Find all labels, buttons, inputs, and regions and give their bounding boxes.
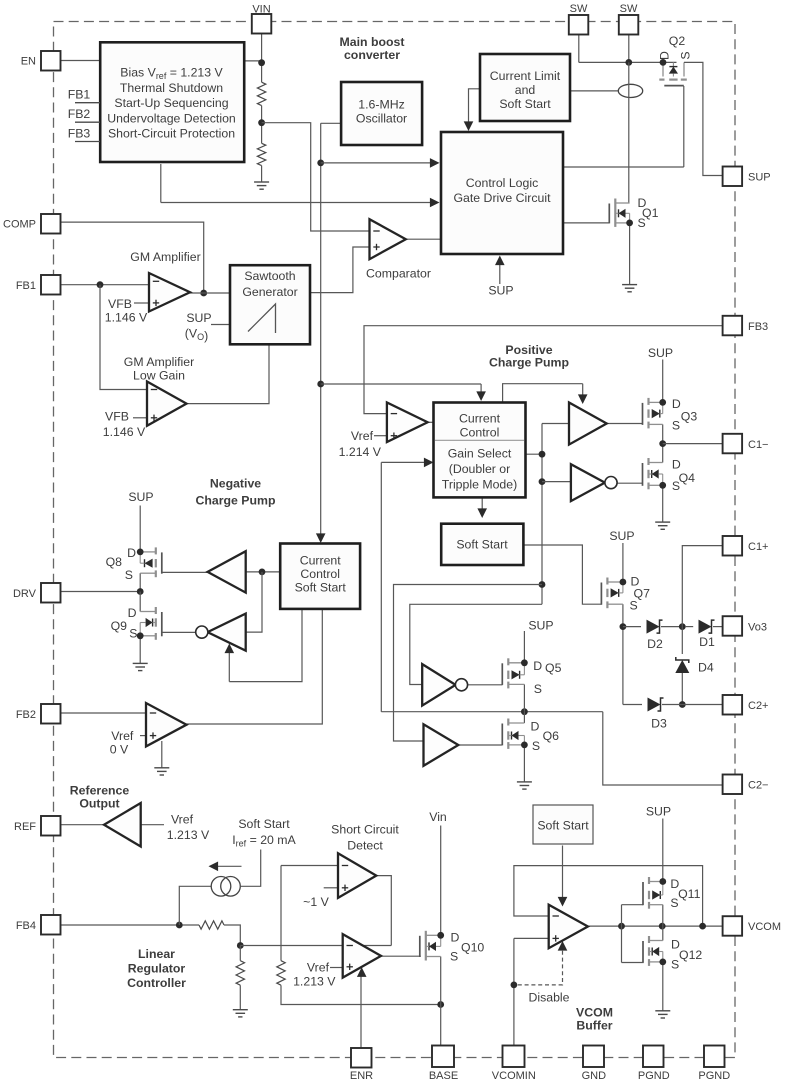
svg-text:Vref: Vref xyxy=(307,961,330,975)
svg-text:Soft Start: Soft Start xyxy=(295,581,347,595)
svg-text:Current: Current xyxy=(459,412,501,426)
svg-text:SUP: SUP xyxy=(488,284,513,298)
svg-text:VCOM: VCOM xyxy=(576,1006,613,1020)
svg-text:Q9: Q9 xyxy=(111,619,128,633)
svg-text:ENR: ENR xyxy=(350,1070,373,1081)
svg-text:Q6: Q6 xyxy=(543,729,560,743)
svg-text:Vin: Vin xyxy=(429,810,447,824)
svg-text:PGND: PGND xyxy=(698,1070,730,1081)
svg-text:Sawtooth: Sawtooth xyxy=(244,269,295,283)
svg-text:Low Gain: Low Gain xyxy=(133,369,185,383)
svg-text:Short-Circuit Protection: Short-Circuit Protection xyxy=(108,127,235,141)
svg-text:VIN: VIN xyxy=(252,3,270,15)
svg-text:1.213 V: 1.213 V xyxy=(167,828,210,842)
svg-text:Q10: Q10 xyxy=(461,941,484,955)
svg-text:VCOMIN: VCOMIN xyxy=(492,1070,536,1081)
svg-text:Iref = 20 mA: Iref = 20 mA xyxy=(232,833,296,849)
svg-text:1.213 V: 1.213 V xyxy=(293,975,336,989)
svg-text:(Doubler or: (Doubler or xyxy=(449,462,511,476)
svg-text:Soft Start: Soft Start xyxy=(456,538,508,552)
svg-text:D: D xyxy=(531,720,540,734)
svg-text:GM Amplifier: GM Amplifier xyxy=(124,355,194,369)
svg-text:S: S xyxy=(450,950,458,964)
svg-text:S: S xyxy=(125,568,133,582)
svg-text:S: S xyxy=(679,51,693,59)
svg-text:1.214 V: 1.214 V xyxy=(339,445,382,459)
svg-text:Q12: Q12 xyxy=(679,948,702,962)
svg-text:Vref: Vref xyxy=(111,729,134,743)
svg-text:VFB: VFB xyxy=(105,410,129,424)
svg-text:1.146 V: 1.146 V xyxy=(103,425,146,439)
svg-text:GM Amplifier: GM Amplifier xyxy=(130,250,200,264)
svg-text:VFB: VFB xyxy=(108,297,132,311)
svg-text:Regulator: Regulator xyxy=(128,962,186,976)
svg-text:converter: converter xyxy=(344,48,400,62)
svg-text:C1−: C1− xyxy=(748,439,769,451)
svg-text:1.146 V: 1.146 V xyxy=(105,311,148,325)
svg-text:DRV: DRV xyxy=(13,588,37,600)
svg-text:Q5: Q5 xyxy=(545,661,562,675)
svg-text:SUP: SUP xyxy=(186,311,211,325)
svg-text:1.6-MHz: 1.6-MHz xyxy=(358,98,404,112)
svg-text:D: D xyxy=(672,397,681,411)
svg-text:SUP: SUP xyxy=(646,805,671,819)
svg-text:Thermal Shutdown: Thermal Shutdown xyxy=(120,81,223,95)
svg-text:FB3: FB3 xyxy=(748,321,768,333)
svg-text:S: S xyxy=(630,599,638,613)
svg-text:S: S xyxy=(671,958,679,972)
svg-text:FB1: FB1 xyxy=(16,280,36,292)
svg-text:D: D xyxy=(672,458,681,472)
svg-text:VCOM: VCOM xyxy=(748,921,781,933)
svg-text:Vref: Vref xyxy=(351,429,374,443)
svg-text:SW: SW xyxy=(620,3,638,15)
svg-text:GND: GND xyxy=(582,1070,607,1081)
svg-text:D1: D1 xyxy=(699,635,715,649)
svg-text:Oscillator: Oscillator xyxy=(356,112,407,126)
svg-text:Soft Start: Soft Start xyxy=(238,817,290,831)
svg-text:Control: Control xyxy=(460,426,500,440)
svg-text:PGND: PGND xyxy=(638,1070,670,1081)
svg-text:~1 V: ~1 V xyxy=(303,895,329,909)
svg-text:Linear: Linear xyxy=(138,947,175,961)
svg-text:Tripple Mode): Tripple Mode) xyxy=(442,478,517,492)
svg-text:Vref: Vref xyxy=(171,813,194,827)
svg-text:D: D xyxy=(127,546,136,560)
svg-text:SUP: SUP xyxy=(128,490,153,504)
svg-text:BASE: BASE xyxy=(429,1070,458,1081)
svg-text:C1+: C1+ xyxy=(748,541,769,553)
svg-text:Start-Up Sequencing: Start-Up Sequencing xyxy=(114,96,228,110)
svg-text:Control Logic: Control Logic xyxy=(466,176,538,190)
svg-text:Vo3: Vo3 xyxy=(748,622,767,634)
svg-text:S: S xyxy=(670,896,678,910)
svg-text:FB1: FB1 xyxy=(68,88,91,102)
svg-text:REF: REF xyxy=(14,821,36,833)
svg-text:Charge Pump: Charge Pump xyxy=(489,356,569,370)
svg-text:COMP: COMP xyxy=(3,219,36,231)
svg-text:Q3: Q3 xyxy=(681,410,698,424)
svg-text:Gate Drive Circuit: Gate Drive Circuit xyxy=(453,191,551,205)
svg-text:S: S xyxy=(638,216,646,230)
svg-text:Controller: Controller xyxy=(127,976,186,990)
svg-text:Detect: Detect xyxy=(347,839,383,853)
svg-text:Current Limit: Current Limit xyxy=(490,69,561,83)
svg-text:Comparator: Comparator xyxy=(366,267,431,281)
svg-text:Bias Vref = 1.213 V: Bias Vref = 1.213 V xyxy=(120,66,223,82)
svg-text:Q2: Q2 xyxy=(669,34,686,48)
svg-text:Reference: Reference xyxy=(70,784,130,798)
svg-text:SUP: SUP xyxy=(528,619,553,633)
svg-text:D: D xyxy=(658,51,672,60)
svg-text:Current: Current xyxy=(300,554,342,568)
svg-text:Q4: Q4 xyxy=(679,471,696,485)
svg-text:Control: Control xyxy=(300,567,340,581)
svg-text:Short Circuit: Short Circuit xyxy=(331,823,399,837)
svg-text:Buffer: Buffer xyxy=(576,1019,612,1033)
svg-text:S: S xyxy=(129,627,137,641)
svg-text:Q11: Q11 xyxy=(678,887,700,901)
svg-text:FB2: FB2 xyxy=(68,107,91,121)
svg-text:Disable: Disable xyxy=(528,991,569,1005)
svg-text:S: S xyxy=(534,682,542,696)
svg-text:FB3: FB3 xyxy=(68,127,91,141)
svg-text:D3: D3 xyxy=(651,717,667,731)
svg-text:Output: Output xyxy=(79,797,119,811)
svg-text:FB4: FB4 xyxy=(16,920,36,932)
svg-text:Undervoltage Detection: Undervoltage Detection xyxy=(107,111,236,125)
svg-text:S: S xyxy=(672,479,680,493)
svg-text:Main boost: Main boost xyxy=(340,35,405,49)
svg-text:(VO): (VO) xyxy=(185,327,208,344)
svg-text:and: and xyxy=(515,83,536,97)
svg-text:Soft Start: Soft Start xyxy=(537,819,589,833)
svg-text:D: D xyxy=(533,659,542,673)
svg-text:C2−: C2− xyxy=(748,780,769,792)
svg-text:SUP: SUP xyxy=(748,172,771,184)
svg-text:Q8: Q8 xyxy=(106,555,123,569)
svg-text:Soft Start: Soft Start xyxy=(499,97,551,111)
svg-text:Gain Select: Gain Select xyxy=(448,447,512,461)
svg-text:EN: EN xyxy=(21,56,36,68)
svg-text:Charge Pump: Charge Pump xyxy=(196,494,276,508)
svg-text:SUP: SUP xyxy=(648,346,673,360)
svg-text:Generator: Generator xyxy=(242,285,297,299)
svg-text:C2+: C2+ xyxy=(748,700,769,712)
svg-text:D: D xyxy=(128,606,137,620)
svg-text:D4: D4 xyxy=(698,661,714,675)
svg-text:S: S xyxy=(532,739,540,753)
svg-text:S: S xyxy=(672,419,680,433)
svg-text:FB2: FB2 xyxy=(16,709,36,721)
svg-text:SW: SW xyxy=(570,3,588,15)
svg-text:Negative: Negative xyxy=(210,477,261,491)
svg-text:SUP: SUP xyxy=(609,529,634,543)
svg-text:D: D xyxy=(451,931,460,945)
svg-text:D2: D2 xyxy=(647,637,663,651)
svg-text:0 V: 0 V xyxy=(110,743,129,757)
